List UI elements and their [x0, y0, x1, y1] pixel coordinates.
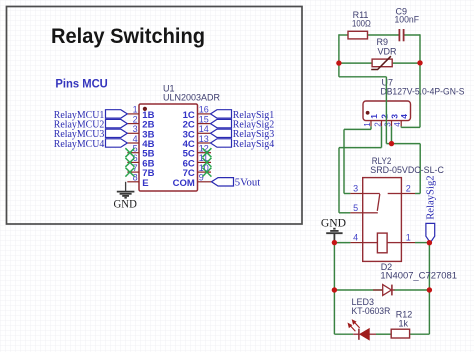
svg-text:1: 1: [363, 122, 372, 127]
U1 left pin names 1B-7B E: [142, 110, 154, 189]
svg-text:5Vout: 5Vout: [235, 178, 260, 189]
net flag RelaySig2: [426, 175, 437, 242]
wire U7 crossing vertical: [386, 77, 420, 144]
svg-text:1k: 1k: [399, 318, 409, 328]
svg-text:16: 16: [199, 105, 209, 115]
svg-text:3: 3: [390, 114, 400, 119]
LED LED3: [348, 297, 390, 340]
svg-text:2: 2: [406, 184, 411, 194]
U1 left pin stubs: [127, 114, 139, 182]
wire U7 pin3 to junction: [391, 126, 393, 143]
net flag RelayMCU1: [54, 110, 128, 121]
svg-text:SRD-05VDC-SL-C: SRD-05VDC-SL-C: [370, 165, 444, 175]
svg-text:ULN2003ADR: ULN2003ADR: [163, 93, 221, 103]
svg-text:GND: GND: [321, 218, 346, 230]
svg-text:RelayMCU4: RelayMCU4: [54, 139, 105, 150]
RLY2 pin numbers: [353, 184, 411, 243]
svg-text:4: 4: [353, 233, 358, 243]
svg-text:8: 8: [133, 173, 138, 183]
svg-text:RelaySig2: RelaySig2: [426, 175, 437, 219]
varistor R9 VDR: [371, 37, 397, 69]
svg-text:15: 15: [199, 114, 209, 124]
svg-text:9: 9: [199, 173, 204, 183]
net flag RelaySig4: [211, 139, 275, 150]
svg-text:RelaySig4: RelaySig4: [233, 139, 275, 150]
RLY2 pin stubs: [350, 194, 415, 243]
title Relay Switching: [51, 25, 205, 48]
svg-text:4: 4: [399, 114, 409, 119]
ground GND (relay): [326, 229, 342, 243]
wire GND net and bottom rails: [334, 243, 429, 335]
U7 pin stubs: [371, 121, 401, 127]
resistor R11: [348, 10, 371, 39]
junction dots: [332, 60, 432, 292]
svg-text:VDR: VDR: [378, 46, 398, 56]
no-connect X marks pins 12 11 10: [202, 148, 211, 176]
diode D2: [373, 262, 457, 295]
svg-text:100Ω: 100Ω: [352, 18, 371, 28]
svg-text:GND: GND: [114, 199, 137, 211]
capacitor C9: [395, 6, 420, 41]
U1 left pin numbers 1-8: [133, 105, 138, 183]
wire top rail: [339, 34, 420, 127]
svg-text:4: 4: [393, 122, 402, 127]
svg-text:COM: COM: [173, 178, 195, 189]
svg-text:100nF: 100nF: [395, 14, 420, 24]
svg-text:13: 13: [199, 134, 209, 144]
svg-text:3: 3: [133, 124, 138, 134]
svg-text:1: 1: [406, 233, 411, 243]
net flag RelayMCU4: [54, 139, 128, 150]
net flag RelaySig3: [211, 129, 275, 140]
wire left rail jog: [339, 63, 387, 77]
U1 right pin numbers 16-9: [199, 105, 209, 183]
ground GND (U1): [117, 192, 135, 198]
IC U1 body: [139, 104, 198, 191]
net flag 5Vout: [212, 178, 261, 189]
svg-text:2: 2: [133, 114, 138, 124]
svg-text:Pins MCU: Pins MCU: [55, 77, 107, 91]
svg-text:KT-0603R: KT-0603R: [352, 306, 391, 316]
U7 pin numbers 1 2 3 4: [363, 122, 402, 127]
svg-text:2: 2: [380, 114, 390, 119]
svg-text:4: 4: [133, 134, 138, 144]
svg-text:5: 5: [353, 203, 358, 213]
IC U1 designator: [163, 84, 221, 103]
U7 pin names 1 2 3 4: [369, 114, 409, 119]
svg-text:E: E: [142, 178, 148, 189]
net flag RelayMCU2: [54, 119, 128, 130]
net flag RelaySig2: [211, 119, 275, 130]
relay RLY2 body: [363, 178, 402, 262]
wire U7 pin4 to right rail: [401, 126, 420, 127]
svg-text:Relay Switching: Relay Switching: [51, 25, 205, 48]
svg-text:3: 3: [383, 122, 392, 127]
svg-text:1: 1: [369, 114, 379, 119]
wire E pin to ground: [125, 182, 127, 191]
label Pins MCU: [55, 77, 107, 91]
U1 right pin names 1C-7C COM: [173, 110, 195, 189]
resistor R12: [391, 309, 412, 338]
wire VDR row: [339, 62, 420, 64]
U1 right pin stubs: [198, 114, 212, 182]
net flag RelayMCU3: [54, 129, 128, 140]
connector U7 designator: [381, 78, 465, 97]
svg-text:3: 3: [353, 184, 358, 194]
relay RLY2 designator: [370, 156, 444, 175]
svg-text:1: 1: [133, 105, 138, 115]
svg-text:1N4007_C727081: 1N4007_C727081: [380, 270, 457, 280]
connector U7 body: [363, 101, 411, 121]
net flag RelaySig1: [211, 110, 275, 121]
svg-text:2: 2: [373, 122, 382, 127]
wire junction to RLY2 pin2: [415, 144, 420, 194]
no-connect X marks pins 5B 6B 7B: [125, 148, 134, 176]
svg-text:DB127V-5.0-4P-GN-S: DB127V-5.0-4P-GN-S: [381, 86, 465, 96]
sheet border frame: [7, 7, 303, 225]
wire U7 pin2 to RLY2 pin5: [339, 126, 382, 213]
svg-text:14: 14: [199, 124, 209, 134]
wire U7 pin1 to RLY2 pin3: [344, 126, 371, 193]
